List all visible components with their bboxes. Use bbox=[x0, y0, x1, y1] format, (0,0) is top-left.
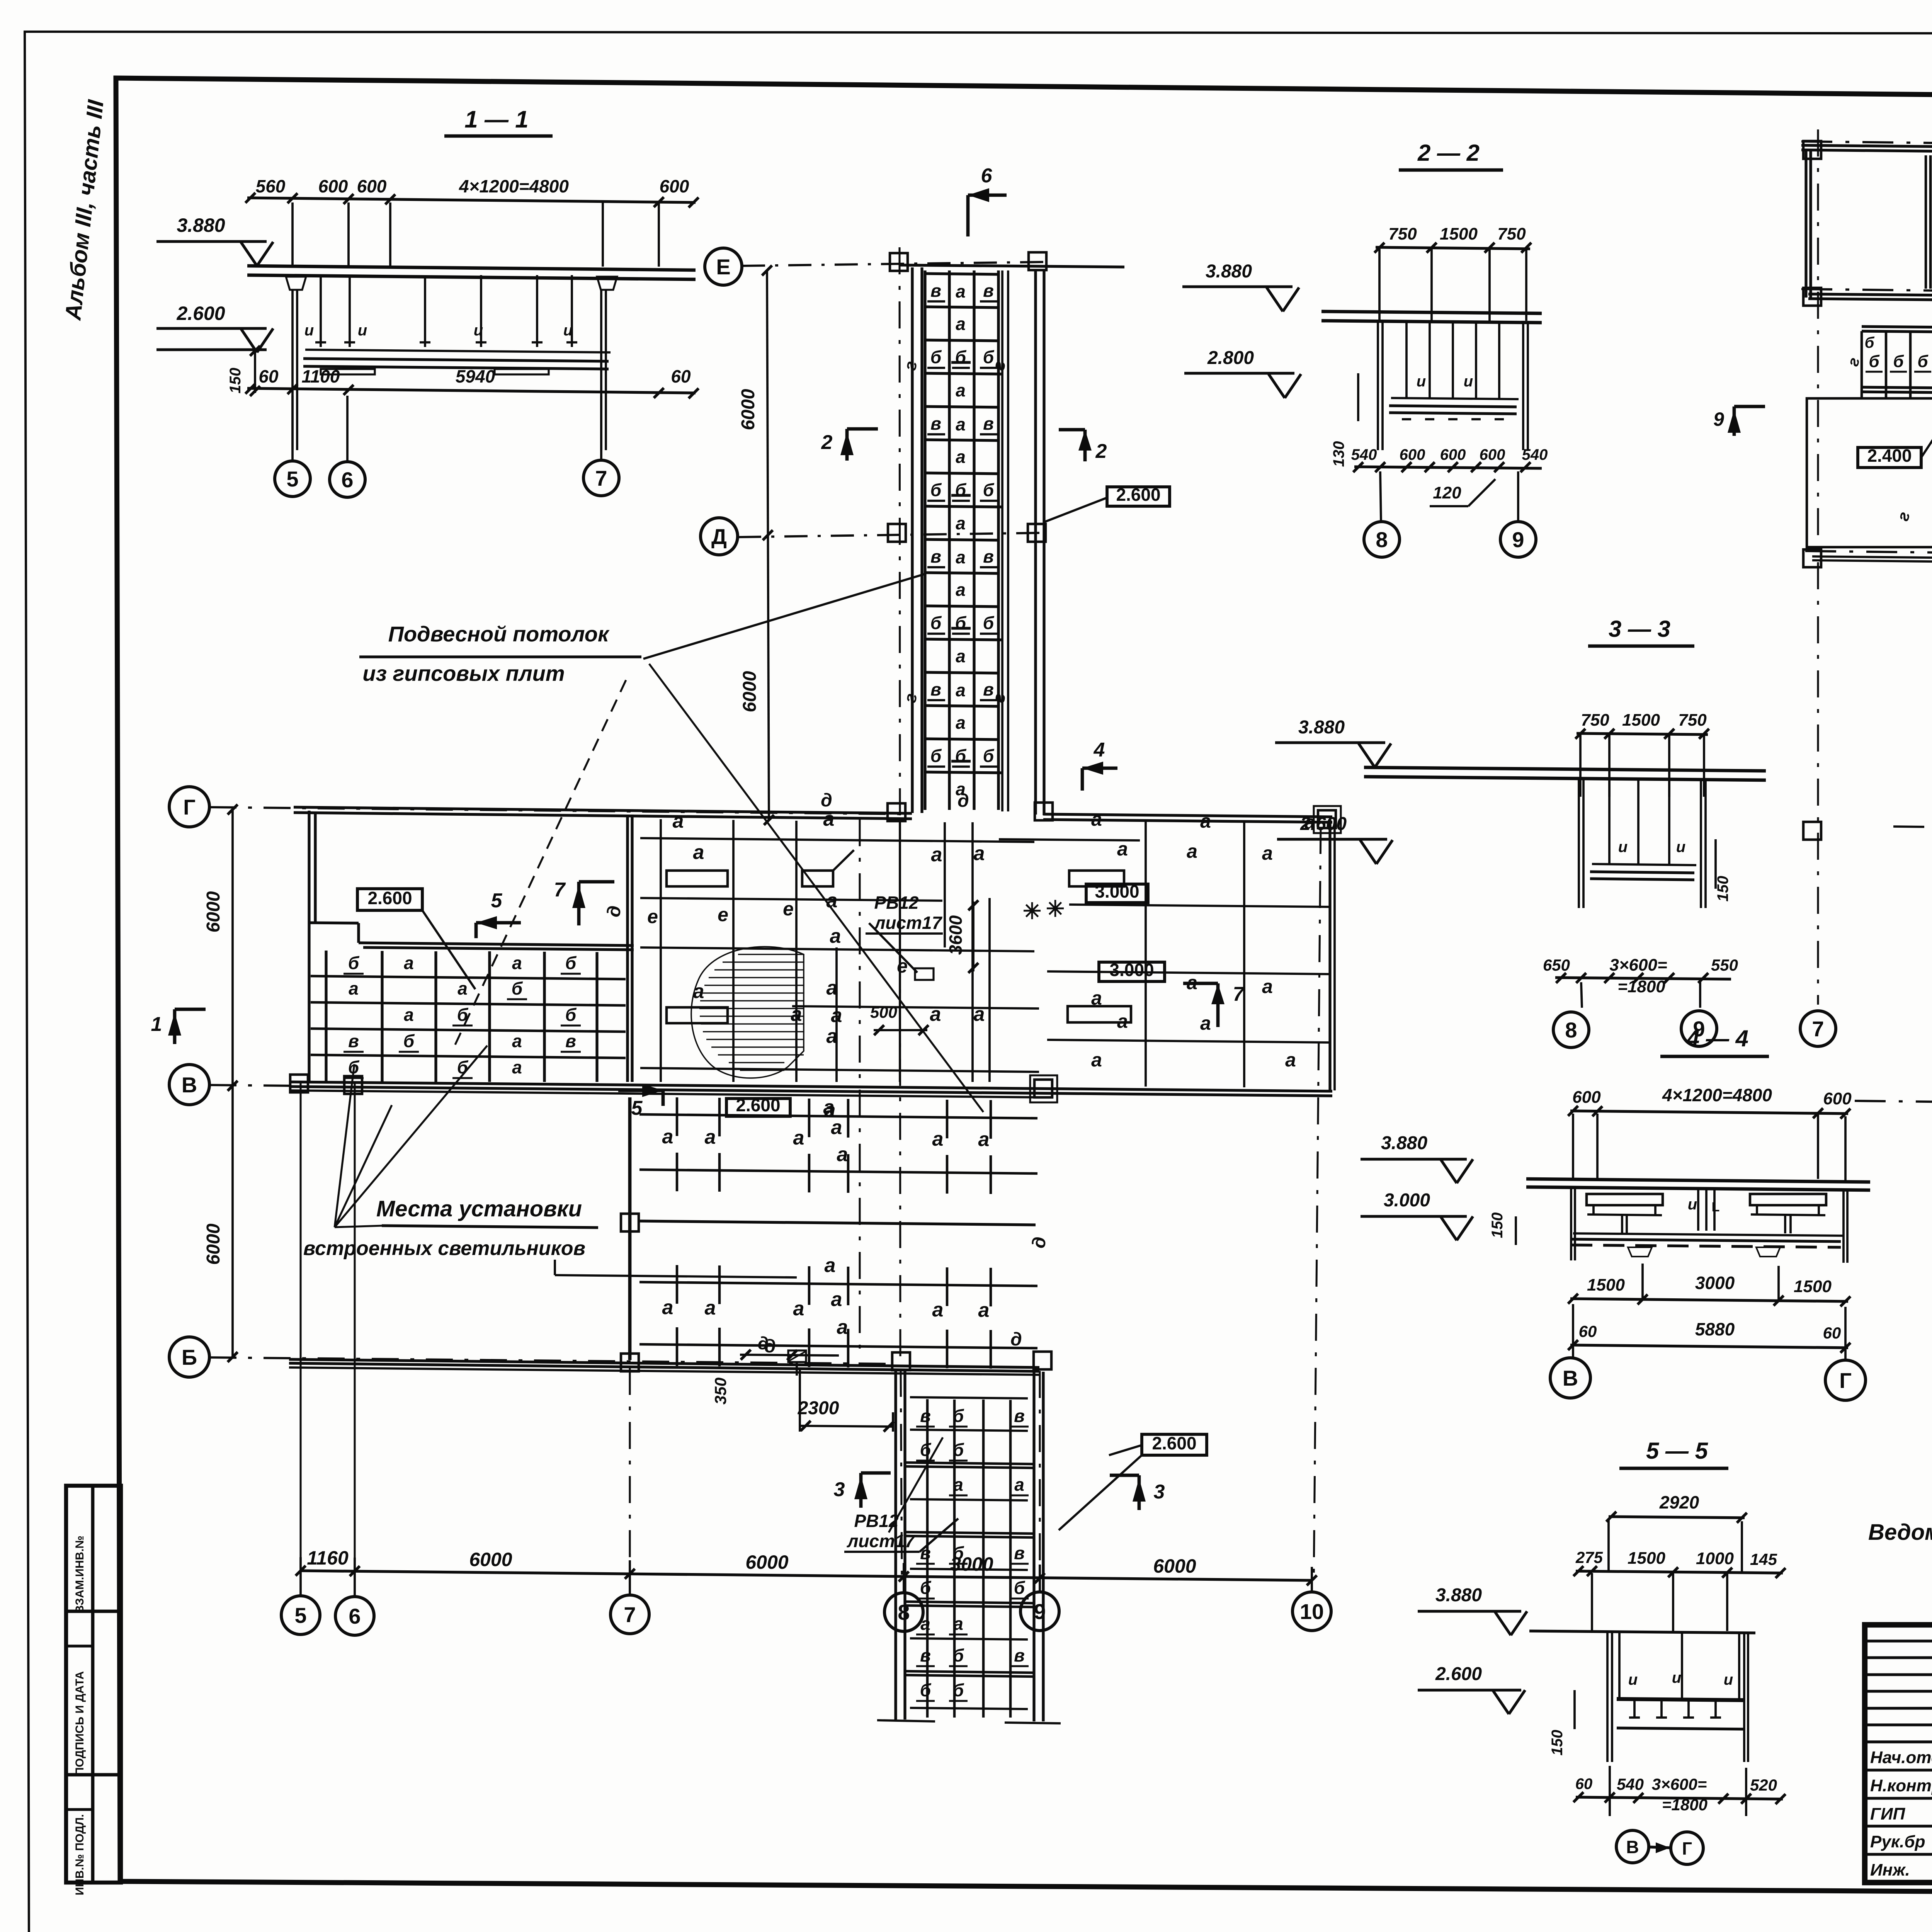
svg-text:✳: ✳ bbox=[1023, 899, 1042, 924]
svg-text:а: а bbox=[1091, 808, 1102, 830]
svg-text:и: и bbox=[1724, 1671, 1733, 1688]
svg-text:а: а bbox=[349, 978, 359, 998]
svg-text:60: 60 bbox=[1823, 1324, 1841, 1342]
svg-text:150: 150 bbox=[227, 368, 244, 394]
svg-text:и: и bbox=[1628, 1671, 1638, 1688]
svg-text:д: д bbox=[1029, 1236, 1050, 1249]
svg-text:145: 145 bbox=[1750, 1550, 1777, 1568]
svg-text:6000: 6000 bbox=[740, 671, 760, 712]
svg-text:4 — 4: 4 — 4 bbox=[1686, 1026, 1748, 1051]
svg-text:3 — 3: 3 — 3 bbox=[1609, 616, 1670, 642]
svg-text:б: б bbox=[955, 347, 967, 367]
svg-text:д: д bbox=[1010, 1329, 1022, 1350]
svg-text:а: а bbox=[837, 1143, 848, 1166]
svg-text:2.600: 2.600 bbox=[1300, 814, 1347, 834]
svg-text:а: а bbox=[827, 977, 838, 999]
svg-text:д: д bbox=[821, 790, 832, 811]
svg-text:а: а bbox=[932, 1299, 944, 1321]
svg-text:2.600: 2.600 bbox=[736, 1095, 780, 1115]
svg-text:500: 500 bbox=[870, 1003, 897, 1021]
svg-text:6: 6 bbox=[349, 1604, 361, 1628]
svg-text:б: б bbox=[930, 480, 942, 500]
svg-text:в: в bbox=[930, 546, 941, 566]
svg-text:60: 60 bbox=[1579, 1322, 1597, 1340]
svg-text:3600: 3600 bbox=[946, 915, 966, 955]
svg-text:3×600=: 3×600= bbox=[1652, 1775, 1707, 1793]
svg-text:а: а bbox=[831, 1004, 842, 1027]
svg-text:3.000: 3.000 bbox=[1384, 1190, 1430, 1211]
svg-text:6000: 6000 bbox=[203, 891, 224, 932]
svg-text:Места установки: Места установки bbox=[376, 1196, 582, 1221]
svg-text:в: в bbox=[1014, 1645, 1025, 1665]
svg-text:б: б bbox=[955, 613, 967, 633]
svg-text:8: 8 bbox=[1565, 1018, 1577, 1042]
svg-text:а: а bbox=[673, 810, 684, 832]
svg-text:и: и bbox=[358, 322, 367, 339]
svg-text:4: 4 bbox=[1094, 739, 1105, 761]
svg-text:а: а bbox=[956, 580, 966, 600]
svg-text:600: 600 bbox=[357, 176, 387, 196]
svg-text:6000: 6000 bbox=[203, 1223, 224, 1265]
svg-text:6000: 6000 bbox=[1153, 1555, 1196, 1577]
svg-text:а: а bbox=[705, 1297, 716, 1319]
svg-text:2.600: 2.600 bbox=[1435, 1664, 1482, 1684]
svg-text:2: 2 bbox=[821, 431, 833, 454]
svg-text:б: б bbox=[930, 613, 942, 633]
svg-text:2.800: 2.800 bbox=[1207, 348, 1254, 368]
svg-text:б: б bbox=[920, 1578, 932, 1598]
svg-text:9: 9 bbox=[1713, 408, 1724, 430]
svg-text:д: д bbox=[758, 1333, 769, 1353]
svg-text:б: б bbox=[1869, 352, 1880, 371]
svg-text:а: а bbox=[956, 713, 966, 733]
svg-text:б: б bbox=[930, 347, 942, 367]
svg-text:Инж.: Инж. bbox=[1870, 1861, 1910, 1879]
svg-text:и: и bbox=[1417, 373, 1426, 390]
svg-text:а: а bbox=[1200, 1012, 1211, 1034]
svg-text:3.000: 3.000 bbox=[1095, 881, 1139, 901]
svg-text:а: а bbox=[1091, 1049, 1102, 1071]
svg-text:а: а bbox=[956, 646, 966, 666]
svg-text:60: 60 bbox=[671, 366, 691, 386]
svg-text:а: а bbox=[1200, 810, 1211, 832]
svg-text:750: 750 bbox=[1388, 224, 1417, 243]
svg-text:а: а bbox=[837, 1316, 848, 1338]
svg-text:600: 600 bbox=[1440, 446, 1466, 463]
svg-text:в: в bbox=[348, 1031, 359, 1051]
svg-text:а: а bbox=[823, 808, 835, 830]
svg-text:✳: ✳ bbox=[1046, 896, 1065, 922]
svg-text:350: 350 bbox=[711, 1378, 730, 1405]
svg-text:7: 7 bbox=[1812, 1017, 1824, 1041]
svg-text:3.880: 3.880 bbox=[1381, 1133, 1427, 1153]
svg-text:4×1200=4800: 4×1200=4800 bbox=[1662, 1085, 1772, 1105]
svg-text:в: в bbox=[920, 1645, 931, 1665]
svg-text:а: а bbox=[974, 1003, 985, 1026]
svg-text:а: а bbox=[974, 842, 985, 865]
svg-text:а: а bbox=[705, 1126, 716, 1148]
svg-text:а: а bbox=[662, 1296, 673, 1319]
svg-text:1160: 1160 bbox=[307, 1547, 349, 1569]
svg-text:б: б bbox=[457, 1005, 469, 1025]
svg-text:е: е bbox=[718, 904, 728, 925]
svg-text:а: а bbox=[956, 314, 966, 334]
svg-text:520: 520 bbox=[1750, 1776, 1777, 1794]
svg-text:1500: 1500 bbox=[1628, 1549, 1665, 1568]
svg-text:ПОДПИСЬ И ДАТА: ПОДПИСЬ И ДАТА bbox=[73, 1671, 86, 1776]
svg-text:150: 150 bbox=[1714, 876, 1731, 902]
svg-text:1500: 1500 bbox=[1587, 1276, 1625, 1294]
svg-text:а: а bbox=[457, 978, 468, 998]
svg-text:а: а bbox=[953, 1614, 963, 1634]
svg-text:и: и bbox=[304, 322, 314, 339]
svg-text:а: а bbox=[1187, 972, 1197, 993]
svg-text:Г: Г bbox=[183, 795, 196, 819]
svg-text:ИНВ.№ ПОДЛ.: ИНВ.№ ПОДЛ. bbox=[73, 1814, 86, 1895]
svg-text:Г: Г bbox=[1682, 1838, 1692, 1859]
svg-text:1: 1 bbox=[151, 1013, 162, 1036]
svg-text:650: 650 bbox=[1543, 956, 1570, 974]
svg-text:1500: 1500 bbox=[1622, 711, 1660, 730]
svg-text:б: б bbox=[920, 1680, 932, 1700]
svg-text:а: а bbox=[1262, 842, 1273, 864]
svg-text:а: а bbox=[956, 513, 966, 533]
svg-text:б: б bbox=[512, 978, 523, 998]
svg-text:и: и bbox=[563, 322, 573, 339]
svg-text:а: а bbox=[793, 1298, 804, 1320]
svg-text:б: б bbox=[953, 1645, 964, 1665]
svg-text:б: б bbox=[983, 746, 995, 766]
svg-text:550: 550 bbox=[1711, 956, 1738, 974]
svg-text:540: 540 bbox=[1522, 446, 1548, 463]
svg-text:и: и bbox=[1688, 1196, 1697, 1213]
svg-text:750: 750 bbox=[1678, 711, 1707, 730]
svg-text:б: б bbox=[953, 1543, 964, 1563]
svg-text:лист17: лист17 bbox=[847, 1531, 916, 1551]
svg-text:275: 275 bbox=[1575, 1548, 1603, 1566]
svg-text:7: 7 bbox=[554, 879, 566, 901]
svg-text:2 — 2: 2 — 2 bbox=[1417, 140, 1480, 166]
svg-text:Ведомость элементов на листе: Ведомость элементов на листе 37 bbox=[1868, 1520, 1932, 1545]
svg-text:а: а bbox=[920, 1614, 930, 1634]
svg-text:5: 5 bbox=[491, 889, 503, 912]
svg-text:а: а bbox=[827, 1025, 838, 1048]
svg-text:а: а bbox=[1285, 1049, 1296, 1071]
svg-text:в: в bbox=[930, 413, 941, 434]
svg-text:600: 600 bbox=[660, 176, 689, 196]
svg-text:а: а bbox=[404, 1005, 414, 1025]
svg-text:3000: 3000 bbox=[1695, 1273, 1735, 1293]
svg-text:3.880: 3.880 bbox=[1298, 717, 1345, 738]
svg-text:в: в bbox=[930, 679, 941, 699]
svg-text:2920: 2920 bbox=[1659, 1492, 1699, 1512]
svg-text:б: б bbox=[930, 746, 942, 766]
svg-text:а: а bbox=[953, 1475, 963, 1495]
svg-text:600: 600 bbox=[1572, 1088, 1601, 1107]
svg-text:60: 60 bbox=[259, 366, 279, 386]
svg-text:Рук.бр: Рук.бр bbox=[1870, 1832, 1925, 1851]
svg-text:В: В bbox=[1626, 1837, 1639, 1857]
svg-text:и: и bbox=[1676, 838, 1685, 855]
svg-text:в: в bbox=[930, 281, 941, 301]
svg-text:Нач.отд: Нач.отд bbox=[1870, 1748, 1932, 1767]
svg-text:1 — 1: 1 — 1 bbox=[464, 106, 528, 133]
svg-text:б: б bbox=[953, 1680, 964, 1700]
svg-text:Г: Г bbox=[1839, 1368, 1852, 1393]
svg-text:ВЗАМ.ИНВ.№: ВЗАМ.ИНВ.№ bbox=[73, 1536, 86, 1614]
svg-text:1500: 1500 bbox=[1794, 1277, 1832, 1296]
svg-text:а: а bbox=[1014, 1475, 1024, 1495]
svg-text:а: а bbox=[1262, 976, 1273, 997]
svg-text:а: а bbox=[662, 1126, 673, 1148]
svg-text:а: а bbox=[956, 547, 966, 567]
svg-text:750: 750 bbox=[1581, 711, 1609, 730]
svg-text:встроенных светильников: встроенных светильников bbox=[303, 1237, 585, 1260]
svg-text:а: а bbox=[693, 841, 704, 864]
svg-text:5: 5 bbox=[631, 1097, 643, 1119]
svg-text:в: в bbox=[565, 1031, 576, 1051]
svg-text:3: 3 bbox=[834, 1478, 845, 1501]
svg-text:а: а bbox=[930, 1003, 941, 1026]
svg-text:б: б bbox=[920, 1440, 932, 1460]
svg-text:6: 6 bbox=[981, 165, 993, 187]
svg-text:в: в bbox=[983, 413, 994, 434]
svg-text:и: и bbox=[1464, 373, 1473, 390]
svg-text:10: 10 bbox=[1300, 1599, 1324, 1624]
svg-text:Подвесной потолок: Подвесной потолок bbox=[388, 622, 610, 646]
svg-text:а: а bbox=[1187, 840, 1197, 862]
svg-text:б: б bbox=[565, 1005, 577, 1025]
svg-text:б: б bbox=[1893, 352, 1904, 371]
svg-text:540: 540 bbox=[1617, 1775, 1644, 1793]
svg-text:5880: 5880 bbox=[1695, 1319, 1735, 1339]
svg-text:150: 150 bbox=[1549, 1730, 1566, 1756]
svg-text:Д: Д bbox=[711, 524, 727, 549]
svg-text:б: б bbox=[953, 1440, 964, 1460]
svg-text:1100: 1100 bbox=[302, 366, 340, 386]
svg-text:а: а bbox=[827, 889, 838, 912]
svg-text:б: б bbox=[955, 746, 967, 766]
svg-text:2300: 2300 bbox=[798, 1398, 839, 1418]
svg-text:600: 600 bbox=[1823, 1089, 1852, 1108]
svg-text:6000: 6000 bbox=[738, 389, 759, 430]
svg-text:600: 600 bbox=[1400, 446, 1425, 463]
svg-text:Н.контр: Н.контр bbox=[1870, 1776, 1932, 1795]
svg-text:600: 600 bbox=[1480, 446, 1505, 463]
svg-text:=1800: =1800 bbox=[1617, 977, 1665, 996]
svg-text:130: 130 bbox=[1330, 441, 1347, 467]
svg-text:б: б bbox=[1014, 1578, 1026, 1598]
svg-text:Б: Б bbox=[182, 1345, 197, 1369]
svg-text:а: а bbox=[512, 953, 522, 973]
svg-text:ГИП: ГИП bbox=[1870, 1804, 1906, 1823]
svg-text:и: и bbox=[1672, 1669, 1681, 1686]
svg-text:б: б bbox=[348, 953, 360, 973]
svg-text:6: 6 bbox=[341, 468, 353, 492]
svg-text:а: а bbox=[1117, 838, 1128, 860]
svg-text:=1800: =1800 bbox=[1662, 1796, 1708, 1814]
svg-text:е: е bbox=[647, 906, 658, 927]
svg-text:8: 8 bbox=[1376, 527, 1388, 552]
svg-text:а: а bbox=[956, 680, 966, 700]
svg-text:а: а bbox=[512, 1031, 522, 1051]
svg-text:7: 7 bbox=[624, 1602, 636, 1627]
svg-text:а: а bbox=[978, 1128, 990, 1151]
svg-text:а: а bbox=[830, 925, 841, 947]
svg-text:3.880: 3.880 bbox=[1206, 261, 1252, 282]
svg-text:а: а bbox=[825, 1099, 836, 1121]
svg-text:б: б bbox=[565, 953, 577, 973]
svg-text:б: б bbox=[403, 1031, 415, 1051]
svg-text:750: 750 bbox=[1497, 224, 1526, 243]
svg-text:2.600: 2.600 bbox=[1152, 1433, 1196, 1453]
svg-text:и: и bbox=[1618, 838, 1628, 855]
svg-text:а: а bbox=[931, 844, 942, 866]
svg-text:в: в bbox=[1014, 1543, 1025, 1563]
svg-text:5: 5 bbox=[286, 467, 298, 491]
svg-text:60: 60 bbox=[1575, 1776, 1593, 1793]
svg-text:2.600: 2.600 bbox=[367, 888, 412, 908]
svg-text:в: в bbox=[983, 281, 994, 301]
svg-text:2.600: 2.600 bbox=[176, 303, 225, 324]
svg-text:В: В bbox=[182, 1073, 197, 1097]
svg-text:е: е bbox=[783, 898, 794, 920]
svg-text:600: 600 bbox=[318, 176, 348, 196]
svg-text:1000: 1000 bbox=[1696, 1549, 1734, 1568]
svg-text:Е: Е bbox=[716, 255, 730, 279]
svg-text:3×600=: 3×600= bbox=[1609, 956, 1667, 975]
svg-text:а: а bbox=[404, 953, 414, 973]
svg-text:В: В bbox=[1563, 1366, 1578, 1390]
svg-text:б: б bbox=[953, 1406, 964, 1426]
svg-text:3.880: 3.880 bbox=[1435, 1585, 1482, 1605]
svg-text:3.000: 3.000 bbox=[1109, 960, 1154, 980]
svg-text:и: и bbox=[474, 322, 483, 339]
svg-text:2.600: 2.600 bbox=[1116, 485, 1160, 505]
svg-text:в: в bbox=[983, 546, 994, 566]
svg-text:а: а bbox=[956, 447, 966, 467]
svg-text:б: б bbox=[983, 480, 995, 500]
svg-text:лист17: лист17 bbox=[874, 913, 943, 933]
svg-text:6000: 6000 bbox=[469, 1549, 512, 1570]
svg-text:а: а bbox=[512, 1057, 522, 1077]
svg-text:5: 5 bbox=[294, 1603, 306, 1628]
svg-text:а: а bbox=[793, 1127, 804, 1149]
svg-text:7: 7 bbox=[1233, 983, 1245, 1005]
svg-text:РВ12: РВ12 bbox=[874, 893, 918, 913]
svg-text:2: 2 bbox=[1095, 440, 1107, 463]
svg-text:4×1200=4800: 4×1200=4800 bbox=[459, 176, 569, 196]
svg-text:из гипсовых плит: из гипсовых плит bbox=[362, 661, 565, 685]
svg-text:5 — 5: 5 — 5 bbox=[1646, 1438, 1709, 1464]
svg-text:150: 150 bbox=[1489, 1213, 1506, 1238]
svg-text:в: в bbox=[920, 1543, 931, 1563]
svg-text:2.400: 2.400 bbox=[1867, 446, 1912, 466]
svg-text:3.880: 3.880 bbox=[177, 214, 225, 236]
svg-text:а: а bbox=[825, 1254, 836, 1277]
svg-text:1500: 1500 bbox=[1440, 224, 1478, 243]
svg-text:120: 120 bbox=[1433, 483, 1461, 502]
svg-text:560: 560 bbox=[256, 176, 286, 196]
svg-text:6000: 6000 bbox=[745, 1551, 788, 1573]
svg-text:9: 9 bbox=[1512, 527, 1524, 552]
svg-text:д: д bbox=[604, 905, 625, 918]
svg-text:3: 3 bbox=[1154, 1481, 1165, 1503]
svg-text:а: а bbox=[956, 380, 966, 400]
svg-text:б: б bbox=[1865, 334, 1875, 351]
svg-text:в: в bbox=[920, 1406, 931, 1426]
svg-text:а: а bbox=[956, 281, 966, 301]
svg-text:а: а bbox=[831, 1288, 842, 1311]
svg-text:7: 7 bbox=[595, 466, 607, 490]
svg-text:б: б bbox=[983, 613, 995, 633]
svg-text:а: а bbox=[978, 1299, 990, 1321]
svg-text:а: а bbox=[932, 1128, 944, 1150]
svg-text:б: б bbox=[1917, 352, 1929, 371]
svg-text:в: в bbox=[1014, 1406, 1025, 1426]
svg-text:а: а bbox=[956, 414, 966, 434]
svg-text:5940: 5940 bbox=[456, 366, 495, 386]
svg-text:L: L bbox=[1712, 1200, 1720, 1214]
svg-text:д: д bbox=[957, 791, 969, 811]
svg-text:а: а bbox=[791, 1003, 802, 1026]
svg-text:540: 540 bbox=[1351, 446, 1377, 463]
svg-text:б: б bbox=[955, 480, 967, 500]
